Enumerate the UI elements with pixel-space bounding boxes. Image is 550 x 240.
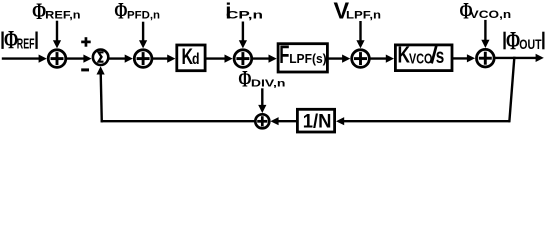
svg-text:REF: REF [17, 36, 35, 53]
svg-text:REF,n: REF,n [45, 9, 81, 21]
svg-text:DIV,n: DIV,n [251, 77, 286, 89]
svg-text:LPF(s): LPF(s) [289, 51, 327, 66]
svg-text:1/N: 1/N [303, 111, 332, 133]
svg-text:F: F [279, 41, 289, 69]
svg-text:LPF,n: LPF,n [346, 9, 381, 21]
svg-text:OUT: OUT [519, 36, 542, 52]
svg-text:d: d [192, 51, 200, 68]
svg-text:Φ: Φ [238, 67, 251, 93]
svg-text:Φ: Φ [32, 0, 46, 25]
svg-text:Φ: Φ [114, 0, 127, 25]
svg-text:s: s [436, 45, 445, 68]
svg-text:CP,n: CP,n [226, 9, 263, 21]
svg-text:VCO: VCO [409, 52, 432, 68]
svg-text:PFD,n: PFD,n [127, 9, 160, 21]
svg-text:Φ: Φ [506, 26, 520, 55]
svg-text:VCO,n: VCO,n [470, 9, 512, 21]
